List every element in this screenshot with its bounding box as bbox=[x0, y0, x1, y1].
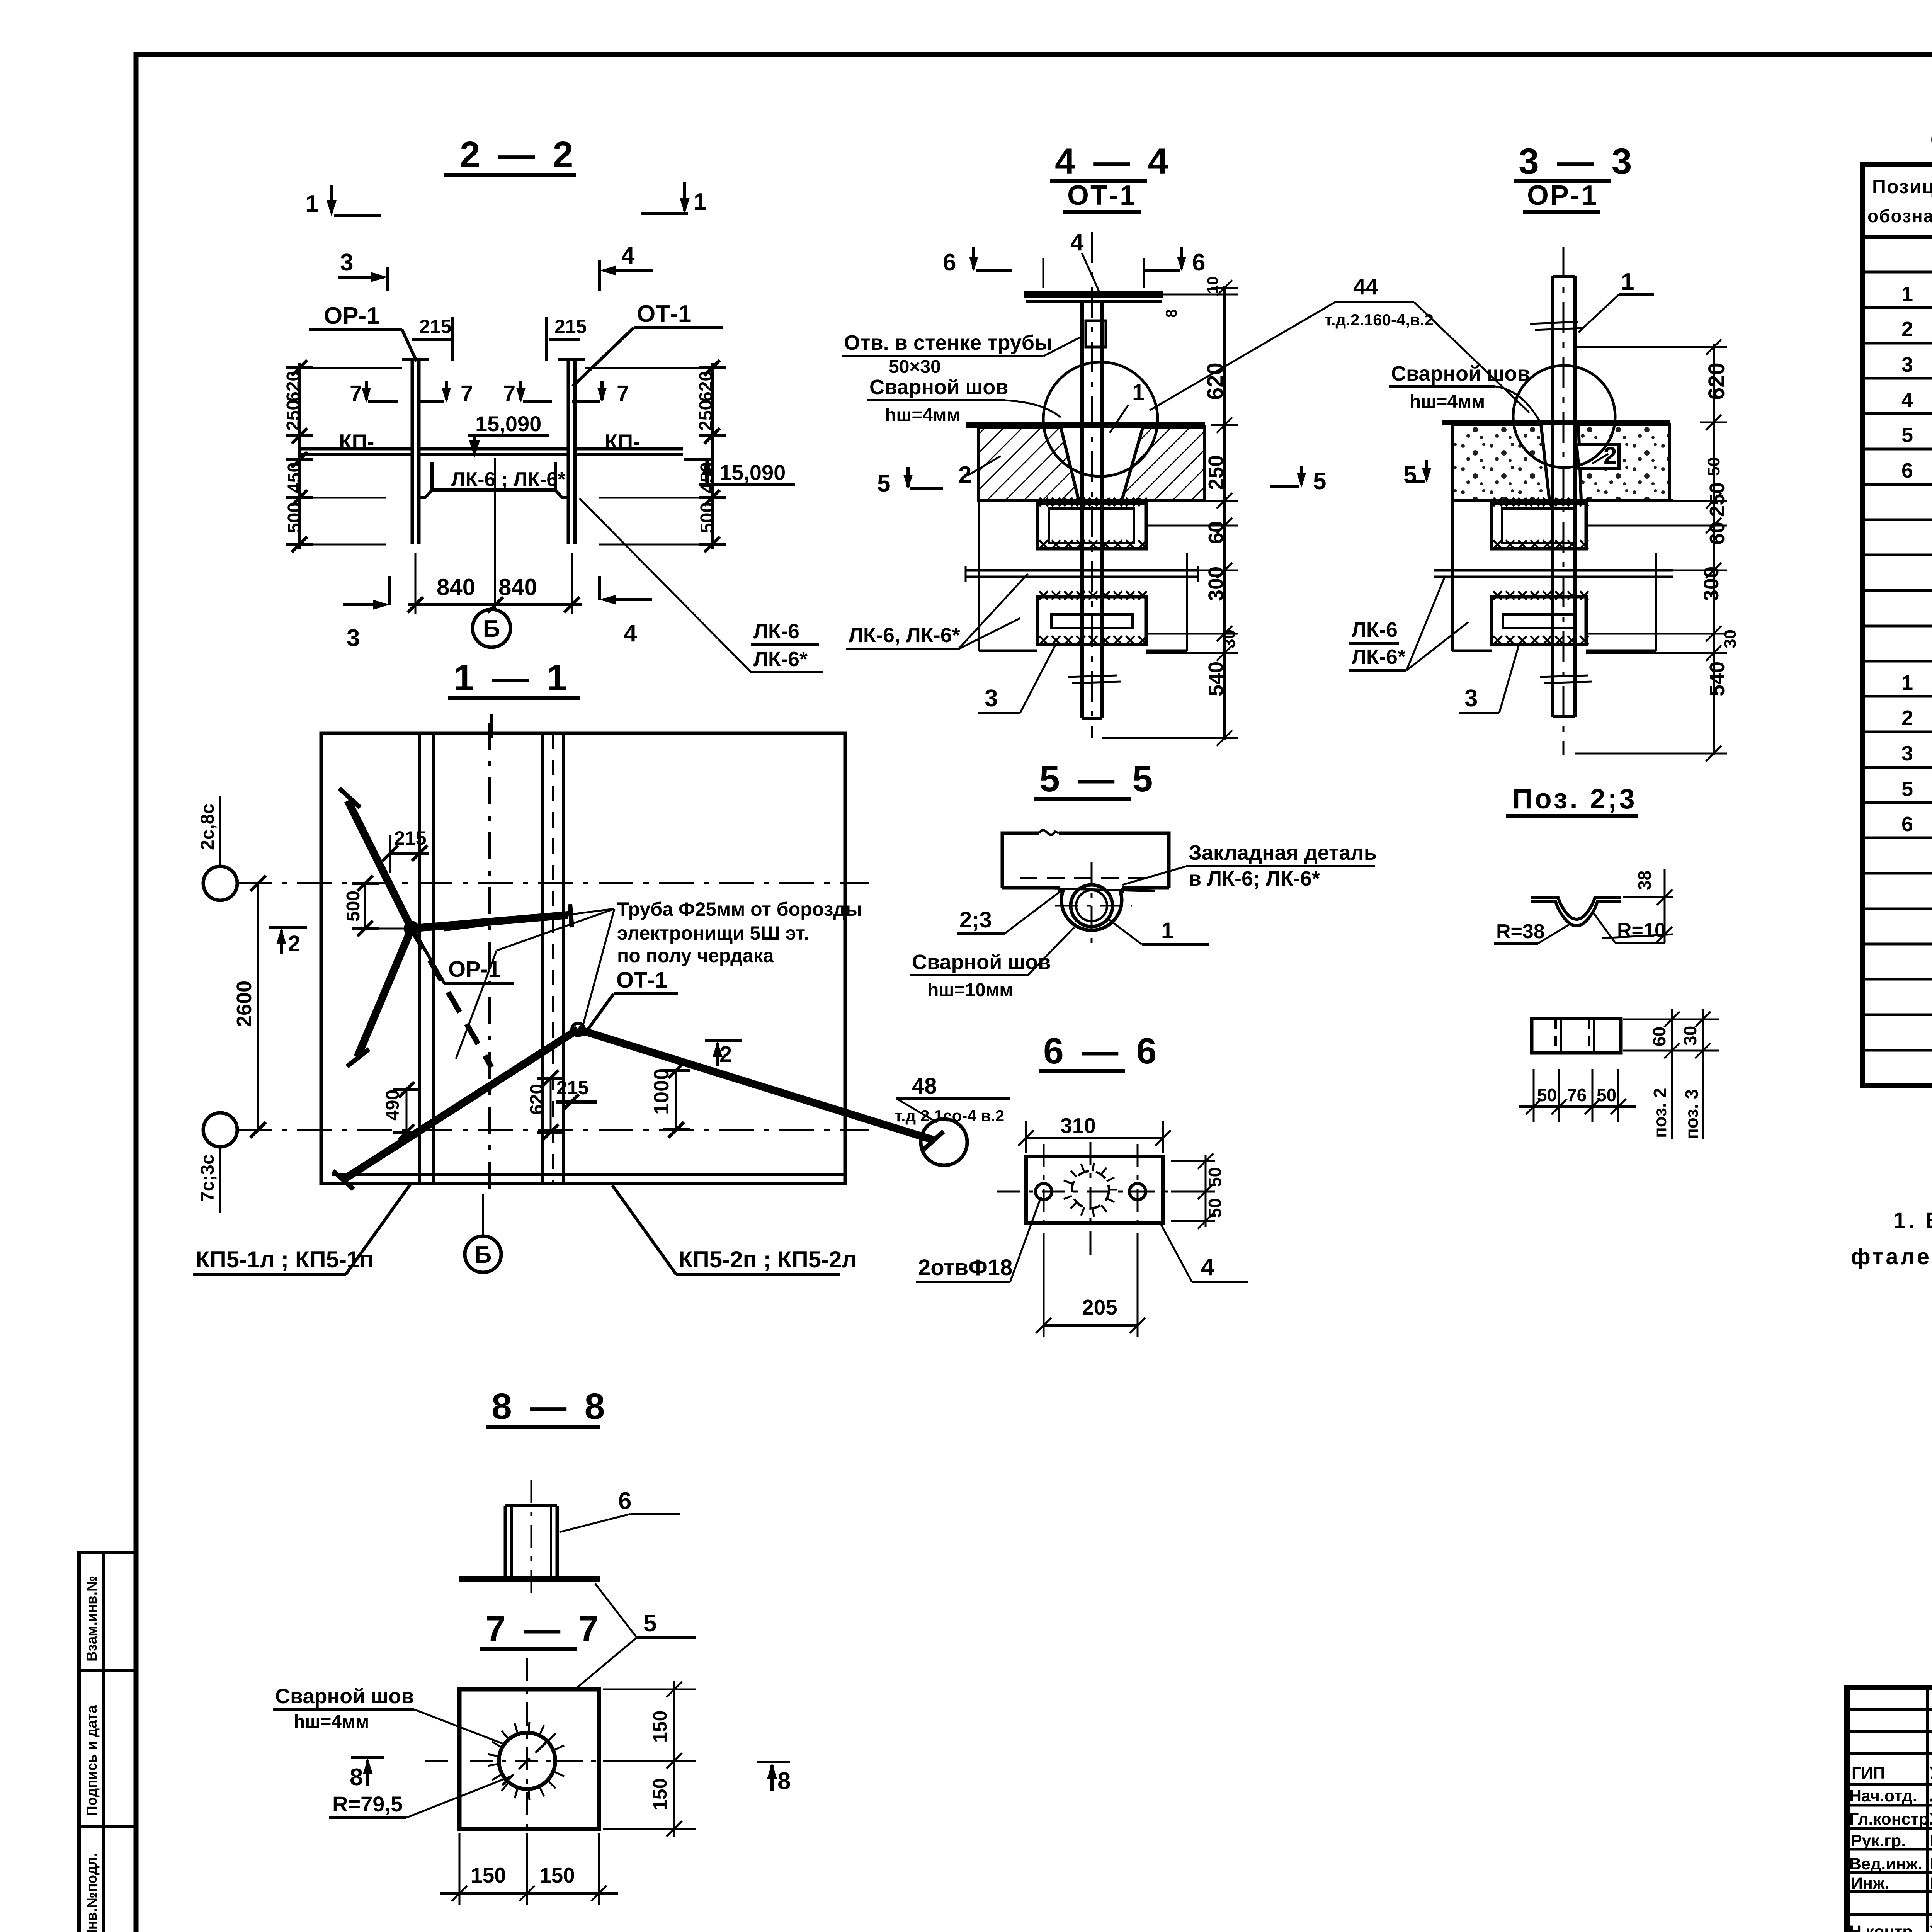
svg-text:2: 2 bbox=[288, 931, 300, 956]
svg-text:7: 7 bbox=[350, 381, 362, 406]
svg-text:6: 6 bbox=[1901, 813, 1914, 836]
svg-text:фталевой эмалью за 2 раза.: фталевой эмалью за 2 раза. bbox=[1851, 1244, 1932, 1269]
svg-text:hш=4мм: hш=4мм bbox=[1410, 391, 1485, 412]
svg-text:ЛК-6: ЛК-6 bbox=[753, 620, 799, 643]
svg-text:6: 6 bbox=[618, 1488, 631, 1514]
svg-text:5: 5 bbox=[1901, 777, 1914, 801]
svg-text:3: 3 bbox=[347, 625, 360, 651]
svg-text:30: 30 bbox=[1680, 1026, 1700, 1046]
svg-text:R=38: R=38 bbox=[1496, 920, 1545, 943]
svg-text:48: 48 bbox=[912, 1073, 937, 1099]
svg-text:50: 50 bbox=[1205, 1167, 1225, 1187]
svg-text:7с;3с: 7с;3с bbox=[197, 1154, 218, 1202]
svg-text:ЛК-6 ; ЛК-6*: ЛК-6 ; ЛК-6* bbox=[451, 468, 566, 491]
svg-text:по полу чердака: по полу чердака bbox=[617, 945, 774, 966]
svg-text:1: 1 bbox=[1132, 380, 1145, 405]
svg-text:Труба Ф25мм от борозды: Труба Ф25мм от борозды bbox=[617, 898, 862, 920]
svg-text:Сварной шов: Сварной шов bbox=[912, 951, 1051, 974]
svg-text:КП5-2п ; КП5-2л: КП5-2п ; КП5-2л bbox=[679, 1247, 857, 1272]
svg-text:3: 3 bbox=[340, 249, 353, 276]
svg-text:30: 30 bbox=[1721, 629, 1740, 648]
svg-text:4: 4 bbox=[1201, 1254, 1214, 1281]
svg-text:Малашта: Малашта bbox=[1930, 1874, 1932, 1893]
svg-text:6 — 6: 6 — 6 bbox=[1043, 1031, 1160, 1071]
svg-text:215: 215 bbox=[556, 1077, 588, 1099]
svg-text:4 — 4: 4 — 4 bbox=[1055, 141, 1172, 182]
svg-text:2с,8с: 2с,8с bbox=[197, 804, 218, 850]
svg-text:50: 50 bbox=[1537, 1085, 1557, 1105]
svg-text:500: 500 bbox=[343, 891, 364, 922]
svg-text:840: 840 bbox=[498, 574, 537, 600]
svg-text:Сварной шов: Сварной шов bbox=[275, 1685, 414, 1708]
svg-text:Б: Б bbox=[474, 1242, 492, 1268]
svg-text:обознач.: обознач. bbox=[1867, 206, 1932, 226]
svg-text:7: 7 bbox=[461, 381, 473, 406]
svg-text:Улитина: Улитина bbox=[1930, 1764, 1932, 1782]
svg-text:150: 150 bbox=[649, 1778, 671, 1810]
svg-text:Сварной шов: Сварной шов bbox=[1391, 362, 1530, 385]
svg-text:250: 250 bbox=[1706, 482, 1729, 517]
svg-text:Полосина: Полосина bbox=[1930, 1832, 1932, 1850]
svg-text:38: 38 bbox=[1634, 871, 1655, 890]
svg-text:Вед.инж.: Вед.инж. bbox=[1849, 1855, 1922, 1873]
svg-text:hш=4мм: hш=4мм bbox=[885, 405, 960, 425]
svg-text:ОТ-1: ОТ-1 bbox=[616, 968, 667, 993]
svg-text:6: 6 bbox=[1192, 249, 1205, 276]
svg-text:ОТ-1: ОТ-1 bbox=[637, 301, 691, 327]
svg-text:3: 3 bbox=[1901, 353, 1914, 376]
svg-text:1: 1 bbox=[1161, 918, 1173, 943]
svg-text:1. Все металлические изделия о: 1. Все металлические изделия окрасить, п… bbox=[1893, 1208, 1932, 1233]
svg-text:т.д 2 1со-4 в.2: т.д 2 1со-4 в.2 bbox=[895, 1107, 1004, 1125]
svg-text:5 — 5: 5 — 5 bbox=[1039, 759, 1156, 799]
svg-text:60: 60 bbox=[1649, 1027, 1669, 1046]
svg-text:150: 150 bbox=[539, 1863, 575, 1887]
svg-text:поз. 3: поз. 3 bbox=[1682, 1089, 1702, 1139]
svg-text:2600: 2600 bbox=[233, 981, 256, 1027]
svg-text:ГИП: ГИП bbox=[1852, 1764, 1885, 1782]
svg-text:8 — 8: 8 — 8 bbox=[492, 1386, 609, 1427]
svg-text:3: 3 bbox=[985, 685, 998, 712]
svg-text:Левина: Левина bbox=[1930, 1787, 1932, 1805]
svg-text:215: 215 bbox=[394, 827, 426, 849]
svg-text:2;3: 2;3 bbox=[959, 907, 992, 932]
svg-text:ОР-1: ОР-1 bbox=[1527, 180, 1598, 211]
svg-text:Н.контр.: Н.контр. bbox=[1849, 1922, 1917, 1932]
svg-text:15,090: 15,090 bbox=[475, 412, 541, 436]
svg-text:ОТ-1: ОТ-1 bbox=[1067, 180, 1137, 211]
svg-text:215: 215 bbox=[554, 316, 587, 337]
svg-text:500: 500 bbox=[284, 502, 305, 533]
svg-text:50×30: 50×30 bbox=[889, 357, 941, 377]
svg-text:7: 7 bbox=[617, 381, 629, 406]
svg-text:620: 620 bbox=[1704, 362, 1729, 400]
svg-text:Киреева: Киреева bbox=[1930, 1855, 1932, 1873]
svg-text:1 — 1: 1 — 1 bbox=[454, 657, 571, 698]
svg-text:840: 840 bbox=[437, 574, 475, 600]
svg-text:4: 4 bbox=[1070, 229, 1084, 256]
svg-text:2 — 2: 2 — 2 bbox=[460, 134, 577, 175]
svg-text:5: 5 bbox=[643, 1610, 656, 1637]
svg-text:5: 5 bbox=[877, 470, 890, 497]
svg-text:ОР-1: ОР-1 bbox=[324, 303, 380, 329]
svg-text:Закладная деталь: Закладная деталь bbox=[1189, 841, 1377, 864]
svg-text:310: 310 bbox=[1060, 1114, 1096, 1138]
svg-text:15,090: 15,090 bbox=[719, 460, 786, 485]
svg-text:Улитина: Улитина bbox=[1930, 1810, 1932, 1828]
svg-text:Инв.№подл.: Инв.№подл. bbox=[84, 1853, 100, 1932]
svg-text:Подпись и дата: Подпись и дата bbox=[84, 1705, 100, 1816]
svg-text:50: 50 bbox=[1597, 1085, 1616, 1105]
svg-text:т.д.2.160-4,в.2: т.д.2.160-4,в.2 bbox=[1325, 311, 1434, 329]
svg-text:R=10: R=10 bbox=[1617, 919, 1666, 942]
svg-text:Отв. в стенке трубы: Отв. в стенке трубы bbox=[844, 331, 1052, 354]
svg-text:Взам.инв.№: Взам.инв.№ bbox=[84, 1576, 100, 1662]
svg-text:5: 5 bbox=[1403, 462, 1417, 488]
svg-text:в ЛК-6; ЛК-6*: в ЛК-6; ЛК-6* bbox=[1189, 867, 1320, 890]
svg-text:ЛК-6*: ЛК-6* bbox=[753, 648, 808, 671]
svg-text:Рук.гр.: Рук.гр. bbox=[1851, 1832, 1906, 1850]
svg-text:500: 500 bbox=[697, 502, 718, 533]
svg-text:150: 150 bbox=[649, 1711, 671, 1743]
svg-text:2: 2 bbox=[1901, 706, 1914, 730]
svg-text:Б: Б bbox=[483, 616, 500, 642]
svg-text:150: 150 bbox=[471, 1863, 506, 1887]
svg-text:hш=10мм: hш=10мм bbox=[927, 980, 1013, 1000]
svg-text:215: 215 bbox=[419, 316, 451, 337]
svg-text:6: 6 bbox=[943, 249, 956, 276]
svg-text:1: 1 bbox=[1901, 282, 1914, 306]
svg-text:1: 1 bbox=[305, 190, 318, 217]
svg-text:ЛК-6*: ЛК-6* bbox=[1352, 645, 1406, 668]
svg-text:КП5-1л ; КП5-1п: КП5-1л ; КП5-1п bbox=[196, 1247, 374, 1272]
svg-text:7 — 7: 7 — 7 bbox=[485, 1609, 602, 1650]
svg-text:ЛК-6, ЛК-6*: ЛК-6, ЛК-6* bbox=[849, 624, 960, 647]
svg-text:4: 4 bbox=[1901, 388, 1914, 412]
svg-text:Гл.констр.: Гл.констр. bbox=[1849, 1810, 1932, 1828]
svg-text:4: 4 bbox=[624, 620, 637, 647]
svg-text:1: 1 bbox=[1621, 269, 1634, 295]
svg-text:hш=4мм: hш=4мм bbox=[294, 1712, 369, 1732]
svg-text:Позиц.: Позиц. bbox=[1872, 176, 1932, 197]
svg-text:3: 3 bbox=[1901, 742, 1914, 765]
svg-text:Поз. 2;3: Поз. 2;3 bbox=[1512, 784, 1637, 815]
svg-text:8: 8 bbox=[777, 1768, 791, 1794]
svg-text:7: 7 bbox=[503, 381, 515, 406]
svg-text:3 — 3: 3 — 3 bbox=[1519, 141, 1636, 182]
svg-text:5: 5 bbox=[1313, 468, 1326, 495]
svg-text:44: 44 bbox=[1353, 274, 1378, 299]
svg-text:3: 3 bbox=[1464, 685, 1478, 712]
svg-text:1: 1 bbox=[694, 189, 707, 215]
svg-text:R=79,5: R=79,5 bbox=[332, 1792, 403, 1816]
svg-text:ЛК-6: ЛК-6 bbox=[1352, 618, 1398, 641]
svg-text:50: 50 bbox=[1205, 1198, 1225, 1218]
svg-text:5: 5 bbox=[1901, 423, 1914, 447]
svg-text:6: 6 bbox=[1901, 459, 1914, 482]
svg-text:Нач.отд.: Нач.отд. bbox=[1849, 1787, 1917, 1805]
svg-text:205: 205 bbox=[1082, 1295, 1117, 1319]
svg-text:Улитина: Улитина bbox=[1930, 1922, 1932, 1932]
svg-text:2: 2 bbox=[1901, 318, 1914, 341]
svg-text:10: 10 bbox=[1204, 277, 1221, 294]
svg-text:76: 76 bbox=[1567, 1085, 1587, 1105]
svg-text:30: 30 bbox=[1220, 629, 1239, 648]
svg-text:2отвФ18: 2отвФ18 bbox=[918, 1255, 1012, 1280]
svg-text:540: 540 bbox=[1706, 662, 1729, 696]
svg-text:Спецификация металла на один э: Спецификация металла на один элемент bbox=[1930, 122, 1932, 156]
svg-text:8: 8 bbox=[1163, 309, 1180, 318]
svg-text:Инж.: Инж. bbox=[1851, 1874, 1889, 1893]
svg-text:электронищи 5Ш эт.: электронищи 5Ш эт. bbox=[617, 922, 809, 944]
svg-text:8: 8 bbox=[350, 1764, 363, 1791]
svg-text:1: 1 bbox=[1901, 671, 1914, 694]
svg-text:4: 4 bbox=[621, 242, 635, 269]
svg-text:Сварной шов: Сварной шов bbox=[869, 376, 1009, 399]
svg-text:поз. 2: поз. 2 bbox=[1650, 1088, 1670, 1138]
